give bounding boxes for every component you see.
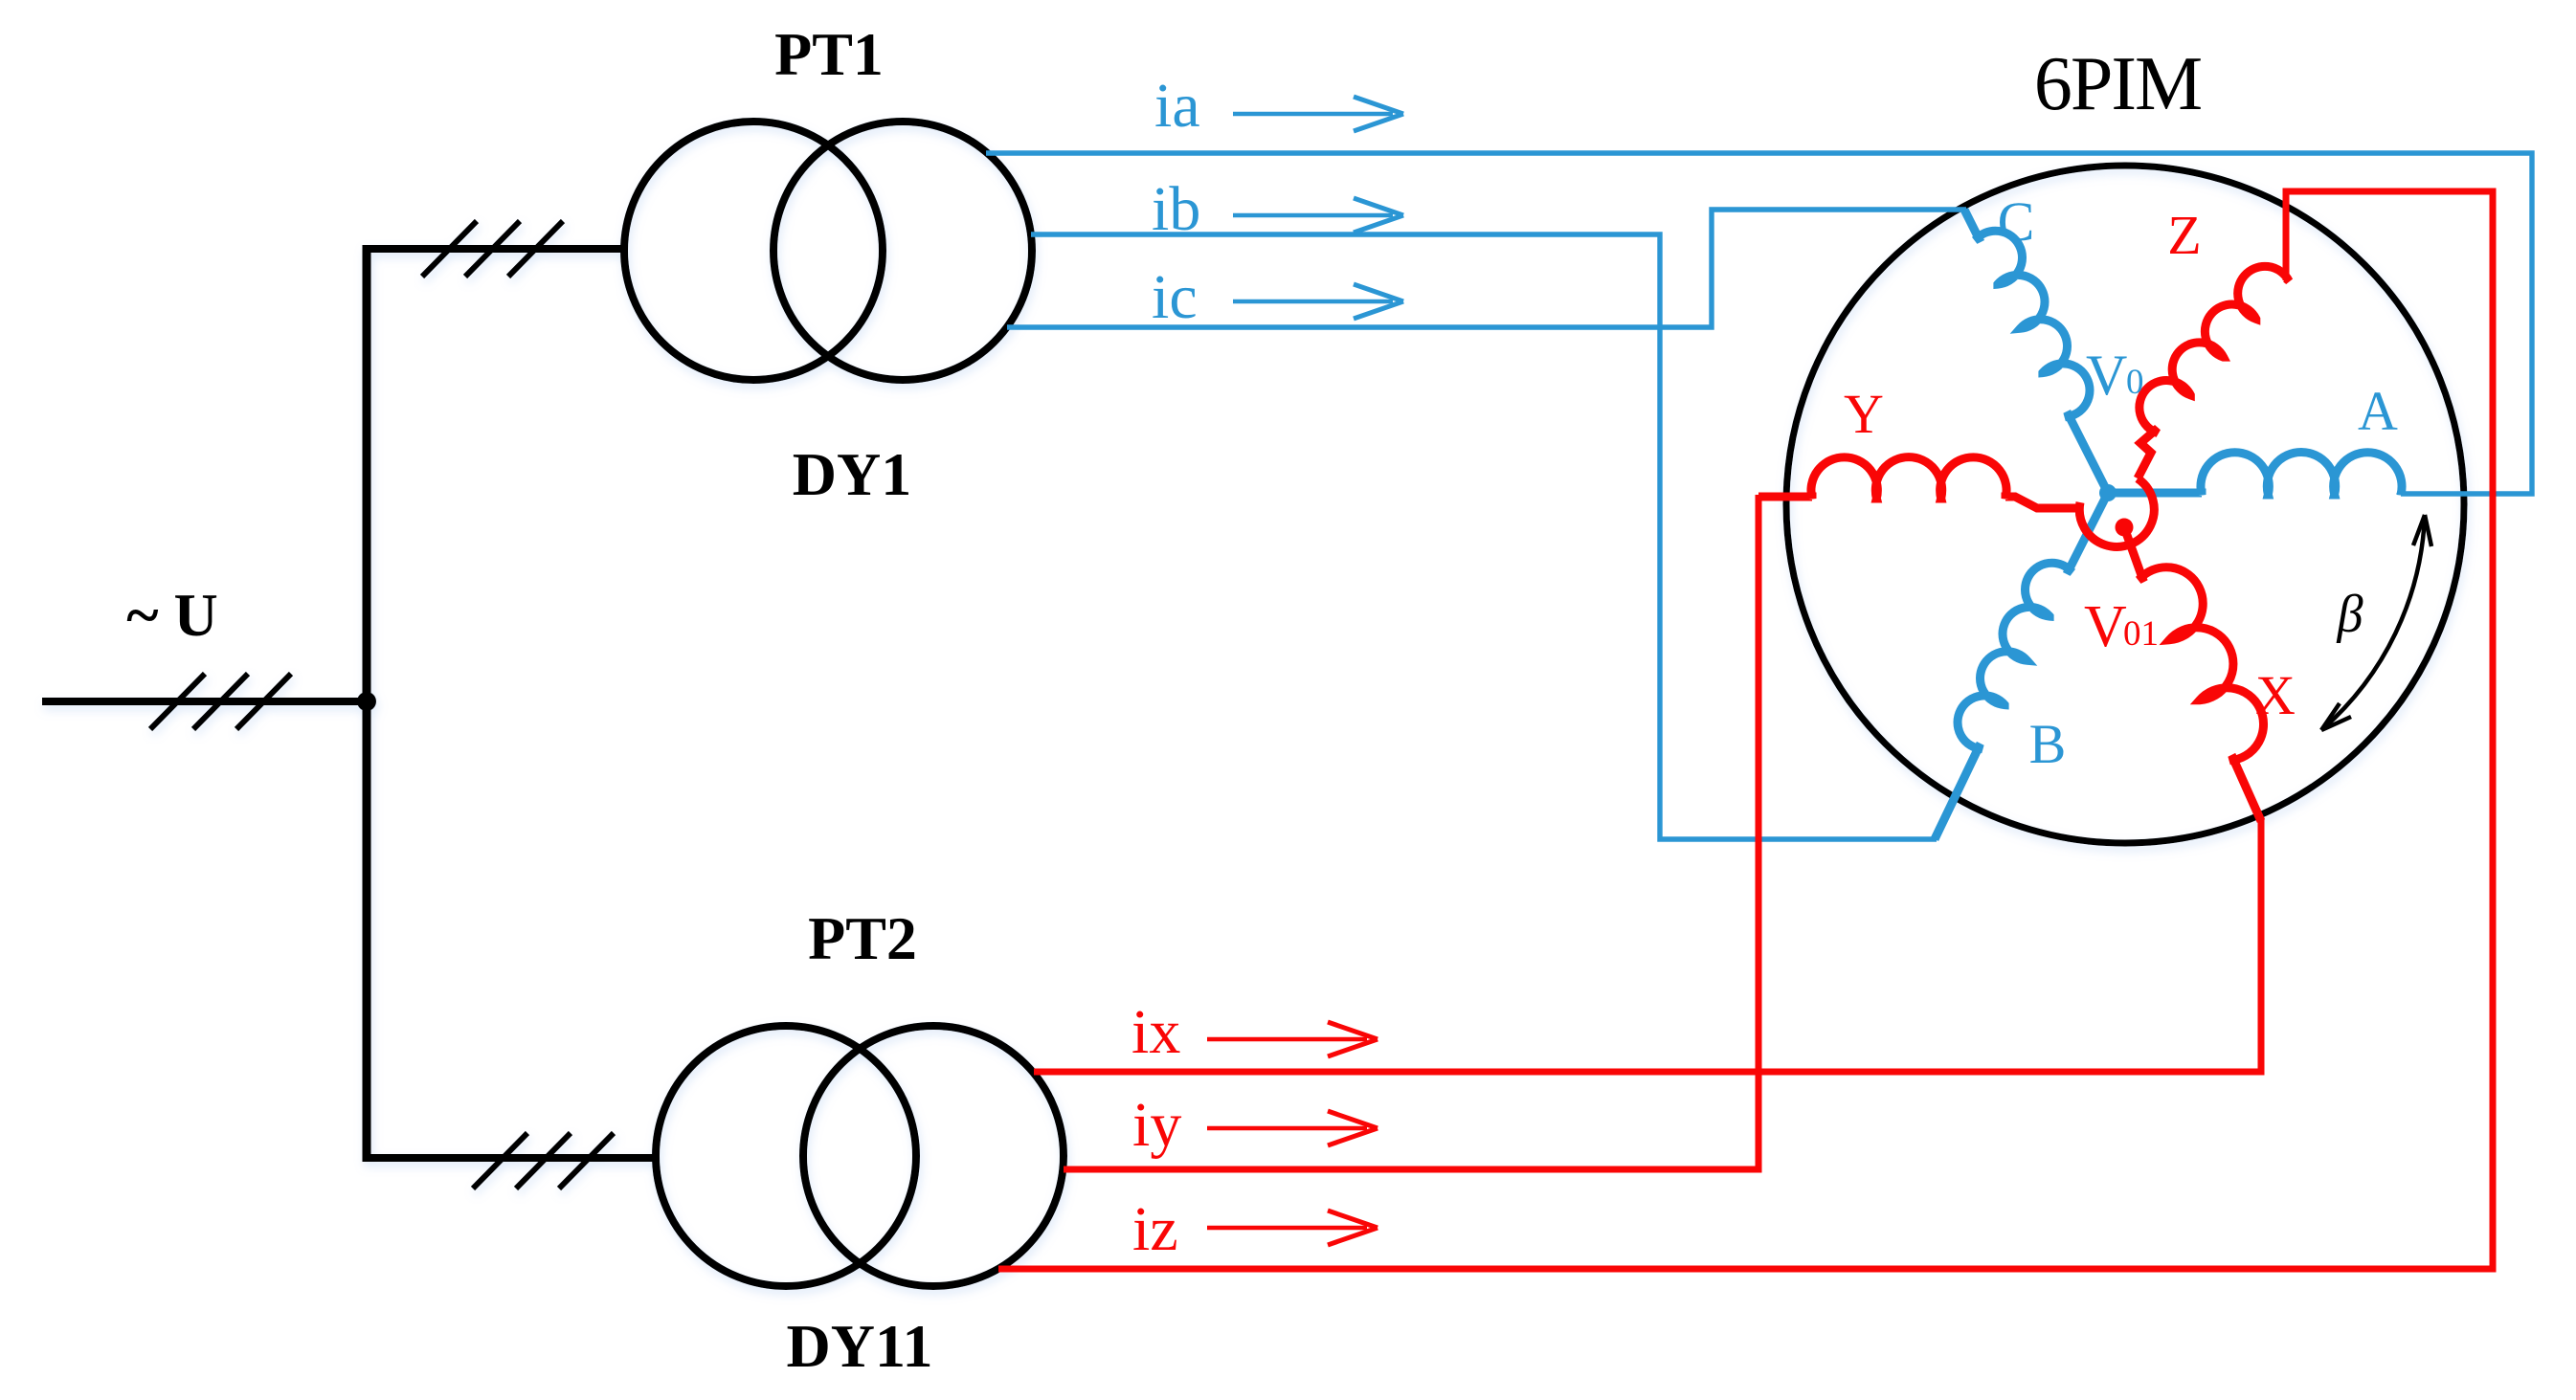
transformer PT1 primary winding circle: [624, 122, 883, 380]
svg-text:0: 0: [2126, 363, 2144, 402]
svg-text:PT2: PT2: [808, 904, 917, 972]
winding Y coil: [1758, 457, 2080, 508]
svg-text:Z: Z: [2167, 204, 2201, 266]
svg-text:Y: Y: [1844, 383, 1884, 445]
svg-text:~ U: ~ U: [126, 581, 218, 649]
label ix with arrow: [1131, 997, 1378, 1067]
winding X coil: [2124, 527, 2264, 821]
svg-text:A: A: [2358, 380, 2398, 442]
red neutral ring around star point: [2079, 478, 2154, 546]
wire iz from PT2 to winding Z: [998, 191, 2493, 1269]
winding Z coil: [2138, 266, 2289, 478]
winding C coil: [1964, 210, 2108, 493]
three-phase slash marks on PT2 branch: [473, 1133, 614, 1189]
svg-text:iz: iz: [1132, 1194, 1178, 1264]
svg-text:DY11: DY11: [787, 1312, 933, 1380]
svg-text:ia: ia: [1154, 71, 1200, 141]
svg-text:V: V: [2084, 594, 2127, 659]
transformer PT1 secondary winding circle: [773, 122, 1032, 380]
wire ix from PT2 to winding X: [1034, 819, 2261, 1072]
wire: vertical bus: [363, 245, 371, 1162]
svg-text:ic: ic: [1152, 262, 1198, 332]
transformer PT2 primary winding circle: [656, 1026, 916, 1286]
wire: three-phase source line ~U: [42, 698, 367, 705]
svg-text:PT1: PT1: [774, 20, 884, 88]
three-phase slash marks on PT1 branch: [422, 221, 563, 277]
svg-text:ix: ix: [1131, 997, 1180, 1067]
wire ia from PT1 to winding A: [986, 153, 2532, 494]
svg-text:DY1: DY1: [793, 440, 911, 508]
svg-text:C: C: [1998, 190, 2035, 253]
winding A coil: [2108, 453, 2402, 495]
winding B coil: [1935, 493, 2108, 839]
junction node: [357, 692, 376, 711]
label V01 neutral: [2084, 594, 2159, 659]
rotation angle beta arc arrow: [2321, 515, 2431, 730]
label iz with arrow: [1132, 1194, 1378, 1264]
star node V01 (red neutral point): [2116, 519, 2134, 537]
motor 6PIM stator circle: [1786, 166, 2464, 843]
wire: branch to PT2: [363, 1154, 657, 1162]
label V0 neutral: [2086, 344, 2144, 407]
label ib with arrow: [1152, 174, 1403, 244]
svg-text:01: 01: [2123, 614, 2159, 654]
wire ic from PT1 to winding C: [1007, 210, 1966, 327]
star node V0 (blue neutral point): [2099, 484, 2117, 501]
wire ib from PT1 to winding B: [1031, 234, 1937, 839]
svg-text:iy: iy: [1132, 1090, 1181, 1160]
label ia with arrow: [1154, 71, 1403, 141]
svg-text:β: β: [2337, 585, 2363, 644]
transformer PT2 secondary winding circle: [803, 1026, 1064, 1286]
svg-text:B: B: [2029, 713, 2067, 775]
svg-text:X: X: [2255, 664, 2296, 726]
svg-text:V: V: [2086, 344, 2127, 407]
wire iy from PT2 to winding Y: [1064, 495, 1758, 1169]
svg-text:6PIM: 6PIM: [2034, 42, 2201, 126]
label iy with arrow: [1132, 1090, 1378, 1160]
label ic with arrow: [1152, 262, 1403, 332]
wire: branch to PT1: [363, 245, 624, 253]
three-phase slash marks on source line: [150, 674, 291, 729]
svg-text:ib: ib: [1152, 174, 1200, 244]
